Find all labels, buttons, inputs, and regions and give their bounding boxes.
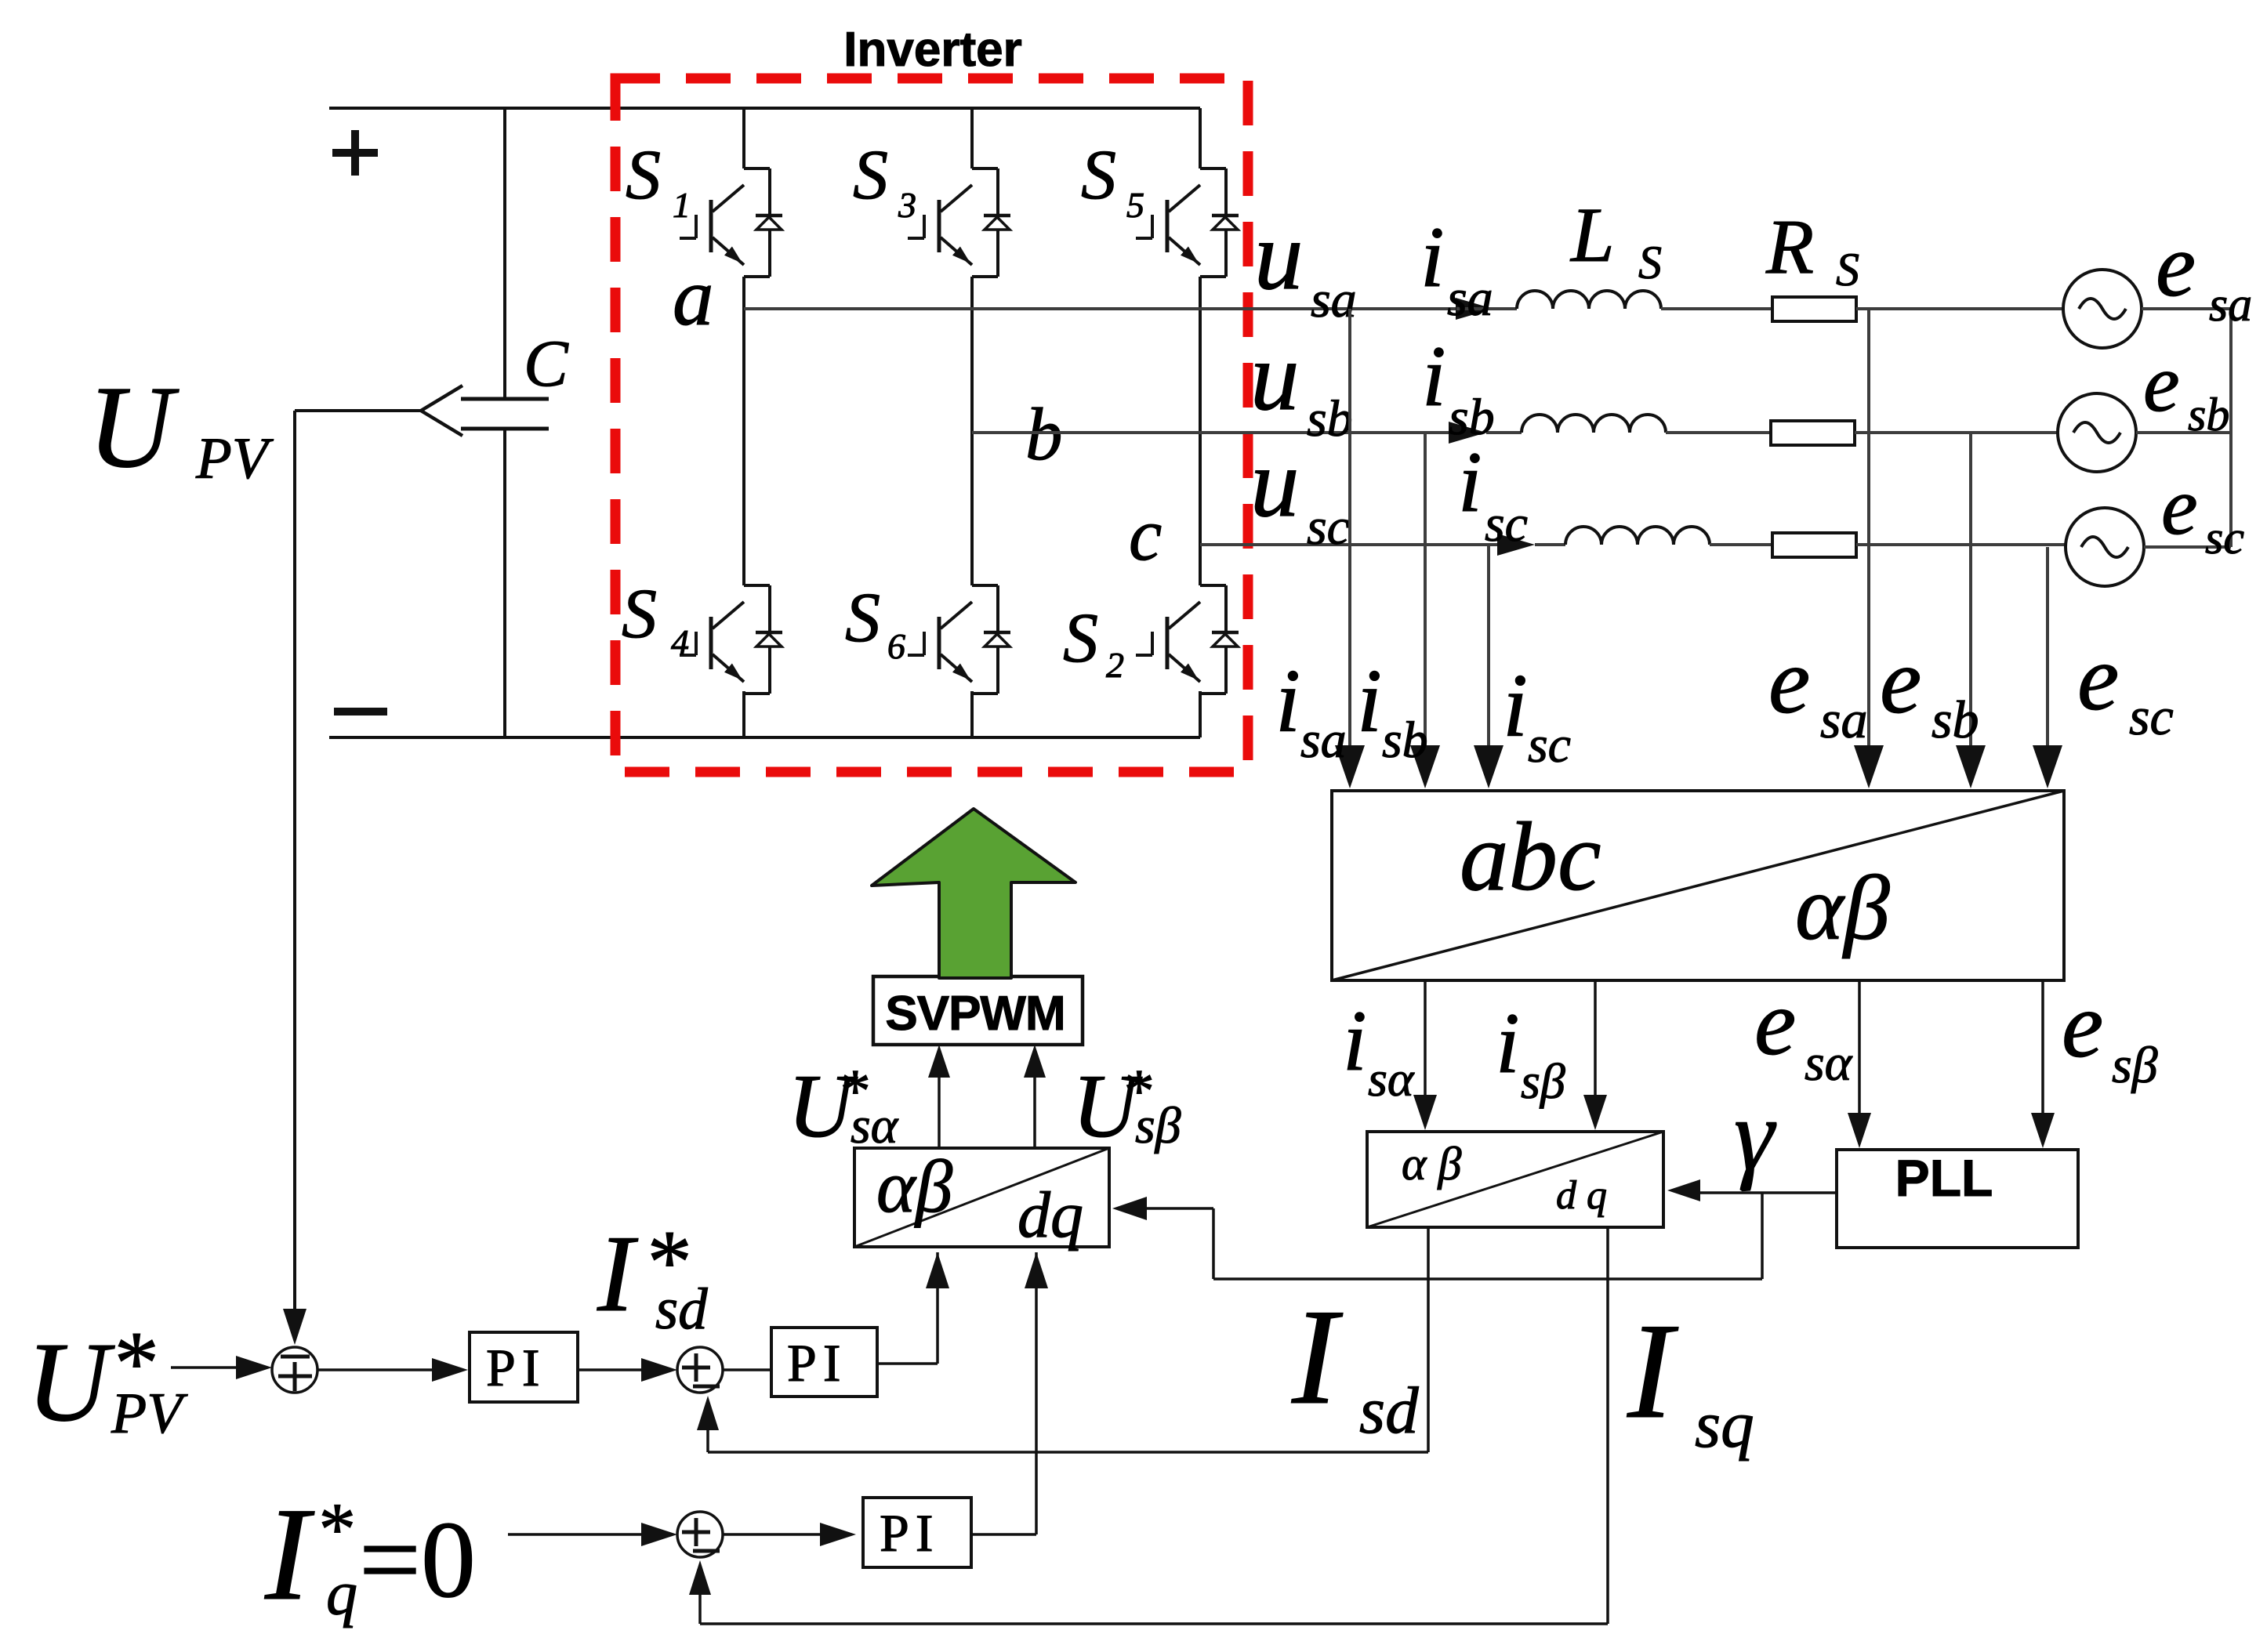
- wire phase b to resistor: [1666, 431, 1771, 434]
- svg-text:sa: sa: [1300, 712, 1347, 769]
- svg-text:e: e: [2143, 337, 2180, 429]
- svg-text:=0: =0: [359, 1499, 476, 1621]
- svg-text:sc: sc: [1528, 716, 1571, 773]
- svg-text:I: I: [597, 1213, 639, 1335]
- svg-text:i: i: [1422, 328, 1446, 424]
- green arrow to inverter: [872, 809, 1075, 978]
- wire phase a: [744, 307, 1456, 310]
- wire phase c to source: [1856, 543, 2066, 546]
- arrow I_sq into sum3: [689, 1560, 711, 1595]
- inverter dashed boundary: [615, 78, 1248, 772]
- block SVPWM: [873, 976, 1083, 1045]
- wire tap i_sc: [1487, 545, 1490, 752]
- svg-text:sd: sd: [655, 1277, 708, 1342]
- svg-text:U: U: [88, 362, 180, 492]
- svg-text:i: i: [1275, 651, 1300, 751]
- arrow e_sc into abc: [2033, 745, 2062, 788]
- svg-text:sβ: sβ: [1521, 1053, 1565, 1109]
- label + (DC positive): [332, 149, 378, 157]
- wire tap i_sb: [1424, 433, 1427, 752]
- wire top DC bus: [329, 107, 1200, 110]
- svg-text:sa: sa: [1447, 270, 1493, 327]
- arrow e_sb into abc: [1956, 745, 1986, 788]
- arrow U_salpha into SVPWM: [928, 1045, 950, 1078]
- svg-text:e: e: [2062, 973, 2103, 1077]
- arrow I_sd into sum2: [697, 1396, 719, 1430]
- svg-text:C: C: [524, 327, 569, 400]
- wire PI3 output right: [971, 1533, 1036, 1536]
- wire I_sd up to sum2: [706, 1411, 709, 1452]
- svg-text:αβ: αβ: [876, 1145, 953, 1228]
- wire bottom DC bus: [329, 736, 1200, 739]
- wire PI2 output up: [936, 1252, 939, 1364]
- wire i_salpha: [1424, 980, 1427, 1096]
- svg-text:S: S: [626, 136, 661, 214]
- block abc to alphabeta: [1332, 791, 2064, 980]
- svg-text:PV: PV: [195, 426, 274, 491]
- wire gamma horizontal: [1213, 1277, 1762, 1281]
- arrow i_sb into abc: [1410, 745, 1440, 788]
- svg-text:i: i: [1343, 993, 1367, 1089]
- arrow gamma into voltage dq: [1112, 1197, 1147, 1220]
- wire leg b lower: [970, 691, 974, 737]
- svg-text:q: q: [326, 1560, 357, 1628]
- arrow into sum1 left: [236, 1356, 272, 1379]
- wire e_sbeta: [2041, 980, 2044, 1114]
- arrow U*_sq into voltage dq: [1025, 1252, 1048, 1288]
- svg-text:e: e: [1880, 629, 1921, 733]
- label - (DC negative): [334, 708, 387, 716]
- wire leg c lower: [1199, 691, 1202, 737]
- block alphabeta to dq currents: [1367, 1132, 1663, 1227]
- svg-text:dq: dq: [1017, 1179, 1083, 1252]
- resistor R_s phase c: [1772, 533, 1856, 557]
- svg-text:i: i: [1357, 651, 1382, 751]
- svg-text:SVPWM: SVPWM: [885, 987, 1065, 1041]
- wire phase a to right bus: [2142, 307, 2231, 310]
- wire tap i_sa: [1348, 309, 1351, 752]
- arrow into PI3: [820, 1523, 856, 1546]
- arrow i_sb on phase b: [1449, 422, 1486, 444]
- svg-text:I: I: [264, 1480, 315, 1628]
- svg-text:abc: abc: [1460, 803, 1601, 911]
- svg-text:sb: sb: [2188, 389, 2229, 440]
- transistor S5 (IGBT with diode): [1200, 167, 1226, 170]
- transistor S4 (IGBT with diode): [744, 584, 770, 587]
- transistor S1 (IGBT with diode): [744, 167, 770, 170]
- arrow into sum3 left: [641, 1523, 677, 1546]
- svg-text:4: 4: [671, 622, 689, 662]
- svg-text:α β: α β: [1402, 1138, 1461, 1190]
- wire i_sbeta: [1594, 980, 1597, 1096]
- wire capacitor branch lower: [503, 429, 506, 737]
- wire phase c to resistor: [1710, 543, 1772, 546]
- svg-text:sc: sc: [2129, 687, 2174, 746]
- wire phase c to right bus: [2144, 545, 2231, 549]
- transistor S3 (IGBT with diode): [972, 167, 998, 170]
- wire leg b middle: [970, 277, 974, 585]
- svg-text:I: I: [1291, 1281, 1344, 1433]
- svg-text:e: e: [1754, 970, 1796, 1074]
- svg-text:e: e: [1768, 629, 1810, 733]
- wire U_salpha to SVPWM: [938, 1050, 941, 1148]
- svg-text:sα: sα: [851, 1097, 899, 1154]
- arrow i_sc on phase c: [1497, 534, 1535, 556]
- wire phase b to source: [1855, 431, 2058, 434]
- wire I_sd down: [1427, 1227, 1430, 1452]
- svg-text:S: S: [1638, 237, 1662, 288]
- source e_sc: [2066, 508, 2144, 586]
- summing junction 2: [677, 1347, 723, 1393]
- wire U_PV horizontal: [295, 409, 423, 412]
- wire phase a to source: [1856, 307, 2063, 310]
- svg-text:sb: sb: [1382, 712, 1428, 769]
- transistor S2 (IGBT with diode): [1200, 584, 1226, 587]
- inductor L_s phase a: [1456, 307, 1517, 310]
- wire U*_PV to sum1: [171, 1366, 251, 1369]
- svg-text:S: S: [845, 579, 880, 657]
- svg-text:sa: sa: [1820, 690, 1867, 749]
- arrow e_salpha into PLL: [1848, 1113, 1871, 1148]
- wire leg c middle: [1199, 277, 1202, 585]
- arrow U_sbeta into SVPWM: [1024, 1045, 1046, 1078]
- svg-text:S: S: [622, 575, 657, 653]
- svg-text:sq: sq: [1695, 1388, 1754, 1462]
- summing junction 1: [272, 1347, 317, 1393]
- wire PI3 output up: [1035, 1252, 1038, 1534]
- wire capacitor branch upper: [503, 108, 506, 399]
- arrow i_sa into abc: [1335, 745, 1365, 788]
- svg-text:PI: PI: [787, 1333, 847, 1393]
- svg-text:6: 6: [887, 626, 905, 666]
- svg-text:S: S: [1081, 136, 1116, 214]
- svg-text:e: e: [2077, 625, 2119, 730]
- wire gamma into voltage dq: [1144, 1207, 1213, 1210]
- svg-text:Inverter: Inverter: [843, 23, 1021, 77]
- arrow gamma into dq currents: [1667, 1179, 1700, 1201]
- wire I_sd horizontal: [708, 1451, 1428, 1454]
- svg-text:PV: PV: [111, 1382, 188, 1446]
- arrow into sum2 left: [641, 1358, 677, 1382]
- svg-text:i: i: [1458, 434, 1482, 530]
- wire tap e_sc: [2046, 547, 2049, 752]
- wire leg a middle: [742, 277, 745, 585]
- svg-text:sα: sα: [1368, 1051, 1415, 1107]
- svg-text:αβ: αβ: [1795, 857, 1890, 959]
- wire gamma up segment: [1212, 1208, 1215, 1279]
- wire right neutral bus: [2229, 309, 2233, 547]
- block PI3: [863, 1498, 971, 1567]
- block alphabeta to dq voltage: [854, 1148, 1109, 1247]
- block PI2: [771, 1328, 877, 1397]
- wire I*q to sum3: [508, 1533, 658, 1536]
- svg-text:i: i: [1420, 209, 1445, 305]
- svg-text:a: a: [673, 251, 714, 342]
- svg-text:sc: sc: [1307, 498, 1350, 556]
- wire I_sq down: [1606, 1227, 1609, 1624]
- svg-text:2: 2: [1106, 645, 1124, 685]
- wire phase b: [972, 431, 1449, 434]
- wire PI2 output right: [877, 1362, 938, 1365]
- wire sum2 to PI2: [723, 1368, 771, 1371]
- inductor L_s phase b: [1486, 431, 1522, 434]
- wire PI1 to sum2: [578, 1368, 658, 1371]
- svg-text:sa: sa: [2209, 278, 2252, 331]
- inductor L_s phase c: [1535, 543, 1565, 546]
- wire leg c upper: [1199, 108, 1202, 168]
- svg-text:sc: sc: [1485, 495, 1528, 552]
- block PI1: [470, 1332, 578, 1402]
- summing junction 3: [677, 1512, 723, 1557]
- wire U_sbeta to SVPWM: [1033, 1050, 1036, 1148]
- svg-text:d q: d q: [1556, 1173, 1607, 1218]
- svg-text:R: R: [1765, 203, 1814, 290]
- arrow i_sc into abc: [1474, 745, 1503, 788]
- wire sum1 to PI1: [317, 1368, 451, 1371]
- wire tap e_sa: [1867, 309, 1870, 752]
- svg-text:sc: sc: [2205, 512, 2244, 563]
- transistor S6 (IGBT with diode): [972, 584, 998, 587]
- arrow e_sa into abc: [1854, 745, 1884, 788]
- wire gamma junction drop: [1761, 1193, 1764, 1279]
- arrow e_sbeta into PLL: [2031, 1113, 2055, 1148]
- svg-text:sβ: sβ: [1135, 1097, 1181, 1154]
- wire phase b to right bus: [2136, 431, 2231, 434]
- svg-text:sb: sb: [1931, 690, 1979, 749]
- svg-text:1: 1: [673, 185, 691, 225]
- svg-text:L: L: [1569, 191, 1615, 278]
- svg-text:U: U: [27, 1320, 115, 1445]
- svg-text:u: u: [1254, 202, 1304, 310]
- svg-text:u: u: [1250, 429, 1300, 538]
- source e_sa: [2063, 270, 2142, 348]
- svg-text:i: i: [1496, 995, 1520, 1091]
- arrow i_sbeta into ab-dq: [1583, 1095, 1607, 1130]
- wire phase a to resistor: [1661, 307, 1772, 310]
- source e_sb: [2058, 393, 2136, 472]
- svg-text:S: S: [1836, 244, 1859, 295]
- svg-text:I: I: [1627, 1295, 1679, 1447]
- svg-text:PI: PI: [486, 1338, 546, 1397]
- svg-text:i: i: [1503, 656, 1528, 755]
- svg-text:*: *: [315, 1487, 353, 1570]
- arrow i_sa on phase a: [1456, 298, 1493, 320]
- wire I_sq horizontal: [700, 1622, 1608, 1625]
- svg-text:sβ: sβ: [2112, 1037, 2158, 1094]
- wire sum3 to PI3: [723, 1533, 837, 1536]
- svg-text:u: u: [1250, 323, 1300, 431]
- arrow into PI1: [432, 1358, 468, 1382]
- wire leg a upper: [742, 108, 745, 168]
- svg-text:sα: sα: [1805, 1034, 1853, 1092]
- wire U_PV vertical down: [293, 411, 296, 1321]
- svg-text:c: c: [1129, 493, 1162, 576]
- svg-text:γ: γ: [1734, 1079, 1777, 1192]
- wire phase c: [1200, 543, 1498, 546]
- svg-text:5: 5: [1126, 185, 1144, 225]
- probe arrow U_PV at capacitor: [421, 386, 462, 411]
- wire tap e_sb: [1969, 433, 1972, 752]
- arrow i_salpha into ab-dq: [1413, 1095, 1437, 1130]
- svg-text:3: 3: [898, 185, 916, 225]
- wire e_salpha: [1858, 980, 1861, 1114]
- svg-text:S: S: [1063, 600, 1098, 677]
- resistor R_s phase b: [1771, 421, 1855, 445]
- svg-text:e: e: [2156, 216, 2196, 315]
- resistor R_s phase a: [1772, 297, 1856, 321]
- capacitor C plates: [461, 397, 549, 401]
- arrow U*_sd into voltage dq: [926, 1252, 949, 1288]
- svg-text:sb: sb: [1307, 390, 1353, 447]
- svg-text:PLL: PLL: [1895, 1149, 1993, 1207]
- svg-text:e: e: [2161, 460, 2198, 552]
- arrow into sum1 top: [283, 1309, 306, 1345]
- wire leg a lower: [742, 691, 745, 737]
- wire gamma from PLL: [1693, 1191, 1837, 1194]
- svg-text:S: S: [853, 136, 888, 214]
- block PLL: [1837, 1150, 2078, 1248]
- wire I_sq up to sum3: [698, 1575, 702, 1624]
- wire leg b upper: [970, 108, 974, 168]
- svg-text:sd: sd: [1359, 1374, 1419, 1447]
- svg-text:PI: PI: [880, 1503, 939, 1563]
